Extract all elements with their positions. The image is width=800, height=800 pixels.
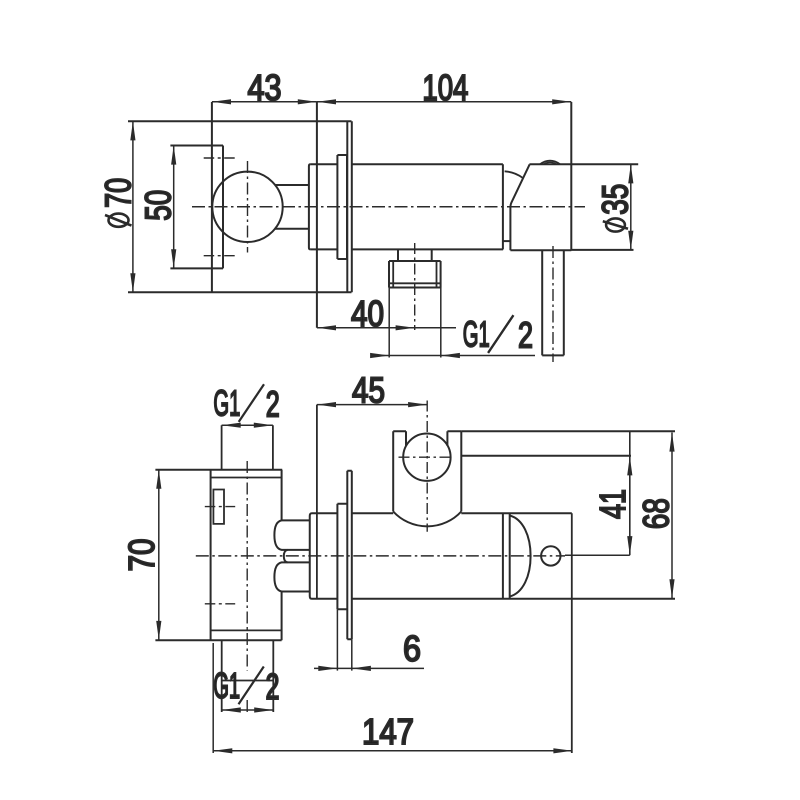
handle lever bar bbox=[461, 431, 675, 456]
lower inlet connector bump bbox=[274, 562, 309, 591]
wall surface line / 45 extension bbox=[316, 405, 318, 599]
shower holder fork right arm bbox=[447, 431, 461, 511]
clip dome bump inner bbox=[544, 162, 557, 164]
dim 147 extension left bbox=[212, 643, 214, 753]
body port centerline lower bbox=[205, 603, 235, 605]
handle ball joint bbox=[212, 172, 282, 242]
junction arc cylinder to holder bbox=[505, 171, 523, 178]
hose tube centerline bbox=[552, 246, 554, 362]
dim 68 bbox=[669, 433, 674, 599]
svg-text:2: 2 bbox=[266, 666, 280, 707]
plate inner disc (edge view) bbox=[337, 155, 347, 259]
hand shower hose connector tube bbox=[542, 250, 564, 355]
port centerline upper bbox=[204, 157, 236, 159]
cylinder end cap lines bbox=[503, 513, 510, 599]
dim dia35 text bbox=[595, 184, 636, 232]
holder bottom edge with dia35 extension bbox=[510, 249, 633, 251]
svg-text:6: 6 bbox=[403, 628, 421, 669]
body vertical centerline bbox=[246, 461, 248, 713]
dim 104 bbox=[317, 99, 571, 104]
svg-text:2: 2 bbox=[518, 315, 533, 356]
dim 45 bbox=[317, 402, 427, 407]
dim 43 bbox=[212, 99, 317, 104]
body port centerline upper bbox=[205, 506, 235, 508]
plate inner disc (bottom view) bbox=[337, 504, 347, 610]
upper inlet connector bump bbox=[274, 520, 309, 550]
svg-text:70: 70 bbox=[121, 539, 162, 572]
inlet fitting neck bbox=[398, 249, 432, 261]
svg-text:35: 35 bbox=[595, 184, 636, 215]
dim 41 line with bar end bbox=[627, 431, 632, 555]
port centerline lower bbox=[204, 255, 236, 257]
main horizontal centerline bbox=[192, 206, 585, 208]
fork grip circle bbox=[403, 434, 450, 481]
mixer cylinder top edge bbox=[311, 163, 503, 165]
escutcheon plate (bottom view) bbox=[347, 471, 352, 639]
svg-text:2: 2 bbox=[266, 384, 280, 425]
svg-text:68: 68 bbox=[635, 498, 676, 529]
dim dia70 text bbox=[98, 178, 139, 227]
mixer cylinder bottom edge bbox=[311, 248, 504, 250]
dim G1/2 fitting leader line bbox=[370, 353, 535, 358]
dim dia70 bbox=[130, 121, 135, 292]
wall escutcheon plate (edge view) bbox=[347, 121, 352, 292]
holder right edge / 104 extension bbox=[570, 102, 572, 250]
dim G1/2 fitting extension lines bbox=[389, 288, 441, 358]
supply tube top G1/2 bbox=[222, 425, 273, 470]
angled shower holder body top edge with dia35 extension bbox=[529, 163, 638, 165]
dim 147 bbox=[213, 748, 572, 753]
dim 40 bbox=[317, 325, 456, 330]
cylinder right cap line bbox=[502, 164, 504, 249]
shower holder fork left arm bbox=[393, 431, 406, 511]
wall box body (concealed valve box, side view) bbox=[128, 102, 352, 328]
svg-text:45: 45 bbox=[352, 370, 385, 411]
svg-text:G1: G1 bbox=[463, 314, 490, 355]
svg-text:104: 104 bbox=[422, 67, 468, 108]
end cap dome arc bbox=[510, 516, 531, 597]
supply tube bottom G1/2 bbox=[222, 640, 274, 712]
dim G1/2 bottom bbox=[222, 707, 274, 712]
svg-text:G1: G1 bbox=[213, 665, 240, 706]
svg-text:40: 40 bbox=[351, 293, 384, 334]
mixer cylinder left cap bbox=[309, 164, 311, 249]
waist between bumps bbox=[284, 550, 288, 563]
svg-text:50: 50 bbox=[137, 190, 178, 221]
centerline solid extension to dim 41 bbox=[565, 554, 630, 556]
clip dome bump outer bbox=[540, 161, 560, 165]
dim 70 bbox=[156, 470, 161, 640]
label G1/2 bottom view bottom bbox=[213, 665, 279, 707]
svg-text:147: 147 bbox=[362, 711, 414, 752]
dim G1/2 top bbox=[222, 423, 273, 428]
step between cylinder and holder bbox=[503, 240, 510, 242]
svg-text:43: 43 bbox=[248, 67, 282, 108]
cylinder top edge (bottom view) bbox=[312, 512, 572, 514]
dim 6 bbox=[314, 666, 424, 671]
valve body (bottom view) bbox=[155, 470, 282, 641]
svg-text:70: 70 bbox=[98, 178, 139, 208]
mounting bracket plate (50 high) bbox=[170, 146, 223, 269]
connection nut edge / collar left cap bbox=[310, 513, 312, 599]
knob screw circle bbox=[541, 546, 560, 565]
fork vertical centerline bbox=[426, 401, 428, 532]
neck between ball and body cap bbox=[275, 185, 309, 229]
right end edge / 147 extension bbox=[571, 513, 573, 753]
label G1/2 bottom view top bbox=[213, 383, 279, 425]
fork horizontal centerline bbox=[399, 456, 452, 458]
cylinder bottom edge with 68 extension bbox=[312, 598, 676, 600]
dim dia35 bbox=[628, 164, 633, 250]
label G1/2 top view bbox=[463, 314, 533, 356]
holder slant cut line bbox=[510, 164, 529, 250]
inlet fitting nut G1/2 bbox=[389, 261, 441, 288]
main horizontal centerline (bottom view) bbox=[196, 555, 565, 557]
check valve detail rect bbox=[213, 490, 224, 524]
svg-text:41: 41 bbox=[592, 489, 633, 519]
svg-text:G1: G1 bbox=[213, 383, 240, 424]
dim 50 bbox=[171, 146, 176, 269]
dim 6 extension lines bbox=[337, 609, 351, 670]
fork outer bottom arc bbox=[393, 512, 461, 527]
fitting centerline bbox=[414, 243, 416, 330]
ball vertical centerline bbox=[247, 161, 249, 253]
